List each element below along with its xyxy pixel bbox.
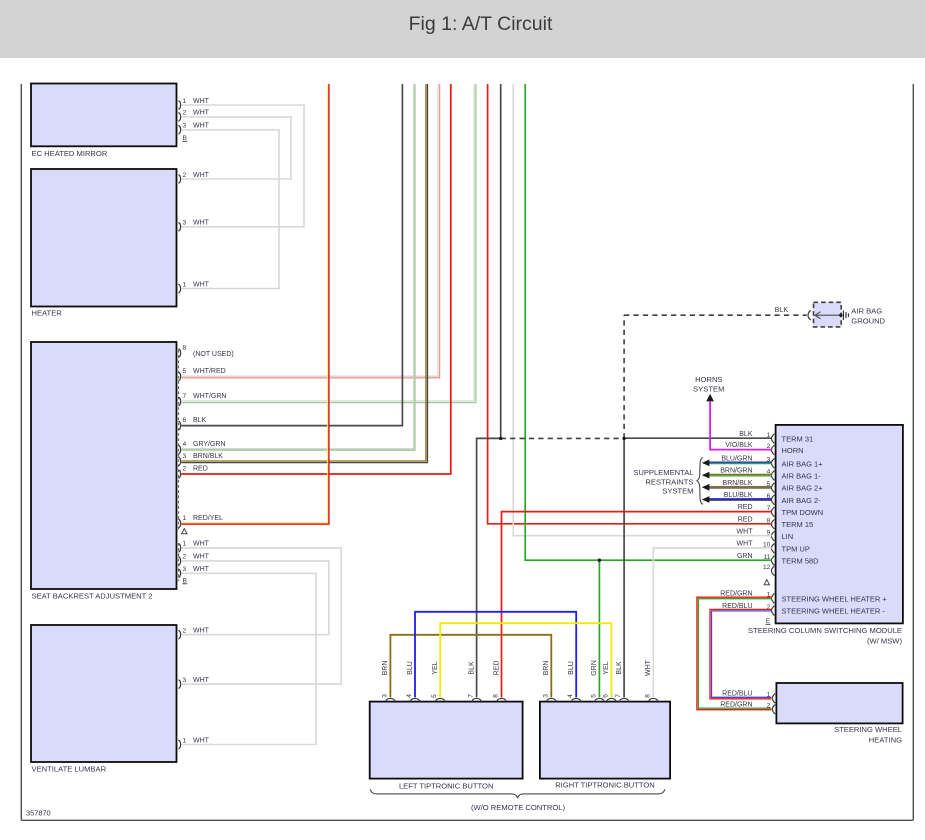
wire BLK branch down to right tiptronic pin7 xyxy=(623,438,625,697)
svg-text:WHT/GRN: WHT/GRN xyxy=(193,393,226,400)
svg-text:1: 1 xyxy=(183,515,187,522)
svg-text:WHT: WHT xyxy=(193,677,210,684)
module heater pin 2 RED/BLU xyxy=(771,606,774,616)
pin 3 WHT of EC HEATED MIRROR xyxy=(178,126,180,135)
module pin 5 BRN/BLK AIR BAG 2+ xyxy=(771,483,774,493)
svg-text:2: 2 xyxy=(183,110,187,117)
pin 2 WHT of SEAT BACKREST ADJUSTMENT 2 lower xyxy=(178,557,180,566)
svg-text:WHT/RED: WHT/RED xyxy=(193,368,226,375)
svg-text:TPM DOWN: TPM DOWN xyxy=(782,508,824,517)
svg-text:EC HEATED MIRROR: EC HEATED MIRROR xyxy=(32,149,108,158)
module pin 10 WHT TPM UP xyxy=(771,544,774,554)
module pin 3 BLU/GRN AIR BAG 1+ xyxy=(771,459,774,469)
svg-text:WHT: WHT xyxy=(193,554,210,561)
wire WHT/GRN seat pin7 to top xyxy=(181,84,474,401)
pin 1 WHT of HEATER xyxy=(178,284,180,293)
seat connector dashed strip lower group xyxy=(178,543,180,581)
svg-text:RED/GRN: RED/GRN xyxy=(720,702,752,709)
svg-text:VENTILATE LUMBAR: VENTILATE LUMBAR xyxy=(32,765,107,774)
svg-text:YEL: YEL xyxy=(432,661,439,674)
right tiptronic pin 3 BRN xyxy=(547,698,557,701)
svg-text:BLK: BLK xyxy=(616,661,623,675)
svg-text:VIO/BLK: VIO/BLK xyxy=(725,442,753,449)
svg-text:STEERING COLUMN SWITCHING MODU: STEERING COLUMN SWITCHING MODULE xyxy=(748,626,902,635)
svg-text:BRN: BRN xyxy=(543,661,550,676)
connector box LEFT TIPTRONIC BUTTON xyxy=(370,702,523,779)
svg-text:AIR BAG: AIR BAG xyxy=(851,307,882,316)
triangle symbol A on seat connector xyxy=(182,529,187,534)
wire BLK vertical from top xyxy=(500,84,502,438)
svg-text:2: 2 xyxy=(183,466,187,473)
svg-text:RED: RED xyxy=(193,466,208,473)
svg-text:BLU: BLU xyxy=(407,661,414,675)
connector box EC HEATED MIRROR xyxy=(31,84,177,147)
pin 1 WHT of SEAT BACKREST ADJUSTMENT 2 lower xyxy=(178,544,180,553)
wire WHT seat pin2 to vent pin2 xyxy=(181,561,328,635)
wire BLK dashed segment to junction xyxy=(501,437,624,439)
brace for SRS xyxy=(697,458,703,505)
svg-text:357870: 357870 xyxy=(26,809,51,818)
svg-text:2: 2 xyxy=(183,172,187,179)
svg-text:AIR BAG 2+: AIR BAG 2+ xyxy=(782,484,824,493)
svg-text:5: 5 xyxy=(431,694,438,698)
svg-text:AIR BAG 2-: AIR BAG 2- xyxy=(782,496,822,505)
pin 7 WHT/GRN of SEAT BACKREST ADJUSTMENT 2 xyxy=(178,397,180,406)
svg-text:RED: RED xyxy=(738,504,753,511)
svg-text:TPM UP: TPM UP xyxy=(782,544,810,553)
svg-text:TERM 58D: TERM 58D xyxy=(782,557,820,566)
svg-text:RED/BLU: RED/BLU xyxy=(722,691,752,698)
svg-text:3: 3 xyxy=(183,220,187,227)
wire BLU/GRN SRS arrow to module xyxy=(709,461,772,463)
svg-text:WHT: WHT xyxy=(193,172,210,179)
svg-text:1: 1 xyxy=(183,541,187,548)
wire BLU/BLK SRS arrow to module xyxy=(709,498,772,500)
svg-text:LIN: LIN xyxy=(782,532,794,541)
svg-text:B: B xyxy=(183,577,188,584)
right tiptronic pin 7 BLK xyxy=(619,698,629,701)
wire BLU left pin4 to right pin4 xyxy=(415,612,576,698)
pin 1 WHT of VENTILATE LUMBAR xyxy=(178,740,180,749)
right tiptronic pin 8 WHT xyxy=(649,698,659,701)
svg-text:WHT: WHT xyxy=(193,541,210,548)
module pin 8 RED TERM 15 xyxy=(771,519,774,529)
svg-text:3: 3 xyxy=(183,123,187,130)
pin 3 BRN/BLK of SEAT BACKREST ADJUSTMENT 2 xyxy=(178,457,180,466)
svg-text:12: 12 xyxy=(763,564,771,571)
right tiptronic pin 6 YEL xyxy=(607,698,617,701)
pin 2 RED of SEAT BACKREST ADJUSTMENT 2 xyxy=(178,470,180,479)
air bag ground arrow line xyxy=(815,314,841,316)
pin 5 WHT/RED of SEAT BACKREST ADJUSTMENT 2 xyxy=(178,372,180,381)
heating pin 1 RED/BLU xyxy=(772,694,775,704)
svg-text:HEATING: HEATING xyxy=(869,735,902,744)
pin 1 WHT of EC HEATED MIRROR xyxy=(178,101,180,110)
svg-text:3: 3 xyxy=(183,566,187,573)
svg-text:3: 3 xyxy=(542,694,549,698)
svg-text:BRN/BLK: BRN/BLK xyxy=(193,453,223,460)
left tiptronic pin 8 RED xyxy=(497,698,507,701)
svg-text:4: 4 xyxy=(406,694,413,698)
wire WHT EC pin1 to HEATER pin3 xyxy=(181,105,304,227)
left tiptronic pin 7 BLK xyxy=(472,698,482,701)
wire WHT seat pin1 to vent pin3 xyxy=(181,548,341,684)
frame left border line xyxy=(20,84,22,820)
svg-text:RIGHT TIPTRONIC BUTTON: RIGHT TIPTRONIC BUTTON xyxy=(555,781,655,790)
pin 3 WHT of SEAT BACKREST ADJUSTMENT 2 lower xyxy=(178,569,180,578)
module pin 6 BLU/BLK AIR BAG 2- xyxy=(771,495,774,505)
svg-text:HORN: HORN xyxy=(782,446,804,455)
connector box RIGHT TIPTRONIC BUTTON xyxy=(540,702,670,779)
svg-text:3: 3 xyxy=(183,677,187,684)
arrow to horns system xyxy=(706,394,714,402)
wire GRN branch to right tiptronic pin5 xyxy=(598,560,600,697)
svg-text:4: 4 xyxy=(567,694,574,698)
svg-text:WHT: WHT xyxy=(193,737,210,744)
svg-text:STEERING WHEEL HEATER +: STEERING WHEEL HEATER + xyxy=(782,594,888,603)
svg-text:WHT: WHT xyxy=(193,281,210,288)
svg-text:BRN: BRN xyxy=(382,661,389,676)
svg-text:BLK: BLK xyxy=(739,431,753,438)
svg-text:GRN: GRN xyxy=(591,660,598,676)
connector box STEERING COLUMN SWITCHING MODULE xyxy=(776,425,903,624)
svg-text:AIR BAG 1+: AIR BAG 1+ xyxy=(782,459,824,468)
svg-text:WHT: WHT xyxy=(193,566,210,573)
svg-text:GRN: GRN xyxy=(737,553,753,560)
svg-text:TERM 15: TERM 15 xyxy=(782,520,814,529)
svg-text:SUPPLEMENTAL: SUPPLEMENTAL xyxy=(633,468,693,477)
module pin 4 BRN/GRN AIR BAG 1- xyxy=(771,471,774,481)
svg-text:RESTRAINTS: RESTRAINTS xyxy=(645,477,693,486)
wire GRY/GRN seat pin4 to top xyxy=(181,84,413,449)
svg-text:BRN/GRN: BRN/GRN xyxy=(720,468,752,475)
svg-text:1: 1 xyxy=(183,281,187,288)
svg-text:RED: RED xyxy=(493,661,500,676)
wire WHT to module pin9 LIN from top xyxy=(513,84,772,536)
air bag ground junction dot xyxy=(839,314,842,317)
svg-text:RED/YEL: RED/YEL xyxy=(193,515,223,522)
svg-text:BLU/BLK: BLU/BLK xyxy=(724,492,753,499)
wire RED module pin7 TPM DOWN to left tiptronic pin8 xyxy=(502,512,772,698)
connector box STEERING WHEEL HEATING xyxy=(776,683,902,723)
svg-text:SEAT BACKREST ADJUSTMENT 2: SEAT BACKREST ADJUSTMENT 2 xyxy=(32,592,153,601)
pin 3 WHT of HEATER xyxy=(178,223,180,232)
svg-text:8: 8 xyxy=(183,345,187,352)
left tiptronic pin 5 YEL xyxy=(435,698,445,701)
wire RED seat pin2 to top xyxy=(181,84,451,474)
module pin 7 RED TPM DOWN xyxy=(771,507,774,517)
svg-text:(W/ MSW): (W/ MSW) xyxy=(867,636,902,645)
svg-text:3: 3 xyxy=(183,453,187,460)
module pin 1 BLK TERM 31 xyxy=(771,434,774,444)
pin 2 WHT of EC HEATED MIRROR xyxy=(178,113,180,122)
svg-text:BLU: BLU xyxy=(568,661,575,675)
svg-text:AIR BAG 1-: AIR BAG 1- xyxy=(782,472,822,481)
connector box SEAT BACKREST ADJUSTMENT 2 xyxy=(31,342,177,589)
wire WHT module pin10 TPM UP to right tiptronic pin8 xyxy=(653,548,772,698)
wire BLK solid to module pin1 TERM 31 xyxy=(624,437,772,439)
pin 8 (NOT USED) of SEAT BACKREST ADJUSTMENT 2 xyxy=(178,349,180,358)
pin 3 WHT of VENTILATE LUMBAR xyxy=(178,680,180,689)
left tiptronic pin 3 BRN xyxy=(386,698,396,701)
svg-text:(W/O REMOTE CONTROL): (W/O REMOTE CONTROL) xyxy=(471,803,566,812)
svg-text:GROUND: GROUND xyxy=(851,316,885,325)
pin 1 RED/YEL of SEAT BACKREST ADJUSTMENT 2 xyxy=(178,519,180,528)
pin 6 BLK of SEAT BACKREST ADJUSTMENT 2 xyxy=(178,421,180,430)
wire RED/GRN module hpin1 to heating pin2 xyxy=(697,597,772,710)
svg-text:8: 8 xyxy=(493,694,500,698)
wire BRN/GRN SRS arrow to module xyxy=(709,473,772,475)
wire BLK dashed up to air bag ground xyxy=(624,315,807,438)
wire VIO/BLK horns to module pin2 HORN xyxy=(710,401,772,449)
svg-text:3: 3 xyxy=(381,694,388,698)
pin 2 WHT of VENTILATE LUMBAR xyxy=(178,630,180,639)
connector box HEATER xyxy=(31,169,177,307)
air bag ground connector arc xyxy=(808,311,811,320)
wire WHT seat pin3 to vent pin1 xyxy=(181,573,316,744)
svg-text:2: 2 xyxy=(183,554,187,561)
svg-text:SYSTEM: SYSTEM xyxy=(662,487,693,496)
wire WHT EC pin2 to HEATER pin2 xyxy=(181,117,291,179)
svg-text:WHT: WHT xyxy=(193,110,210,117)
svg-text:WHT: WHT xyxy=(193,627,210,634)
module triangle symbol xyxy=(764,580,769,585)
svg-text:7: 7 xyxy=(468,694,475,698)
pin 2 WHT of HEATER xyxy=(178,175,180,184)
svg-text:4: 4 xyxy=(183,441,187,448)
seat connector dashed strip upper group xyxy=(178,350,180,530)
heating pin 2 RED/GRN xyxy=(772,705,775,715)
svg-text:1: 1 xyxy=(183,737,187,744)
svg-text:HEATER: HEATER xyxy=(32,309,63,318)
ground symbol bars xyxy=(842,310,844,320)
wire WHT EC pin3 to HEATER pin1 xyxy=(181,130,279,289)
svg-text:6: 6 xyxy=(183,417,187,424)
svg-text:WHT: WHT xyxy=(737,541,754,548)
svg-text:8: 8 xyxy=(644,694,651,698)
frame bottom border line xyxy=(21,819,913,821)
module pin 12 xyxy=(771,566,774,576)
svg-text:SYSTEM: SYSTEM xyxy=(693,385,724,394)
svg-text:BLK: BLK xyxy=(193,417,207,424)
underbrace tiptronic buttons xyxy=(370,789,665,797)
svg-text:(NOT USED): (NOT USED) xyxy=(193,351,234,358)
module pin 2 VIO/BLK HORN xyxy=(771,445,774,455)
svg-text:WHT: WHT xyxy=(193,98,210,105)
left tiptronic pin 4 BLU xyxy=(410,698,420,701)
wire YEL left pin5 to right pin6 xyxy=(440,623,611,697)
module heater pin 1 RED/GRN xyxy=(771,594,774,604)
svg-text:LEFT TIPTRONIC BUTTON: LEFT TIPTRONIC BUTTON xyxy=(399,782,494,791)
svg-text:YEL: YEL xyxy=(603,661,610,674)
module pin 9 WHT LIN xyxy=(771,531,774,541)
svg-text:B: B xyxy=(183,135,188,142)
svg-text:BLK: BLK xyxy=(468,661,475,675)
svg-text:STEERING WHEEL HEATER -: STEERING WHEEL HEATER - xyxy=(782,607,886,616)
svg-text:5: 5 xyxy=(590,694,597,698)
junction dot BLK left xyxy=(499,437,502,440)
wire GRN to module pin11 TERM 58D from top xyxy=(525,84,772,560)
svg-text:STEERING WHEEL: STEERING WHEEL xyxy=(834,725,902,734)
junction dot BLK right xyxy=(622,437,625,440)
svg-text:2: 2 xyxy=(183,627,187,634)
wire RED/YEL seat pin1 to top xyxy=(181,84,327,523)
right tiptronic pin 4 BLU xyxy=(571,698,581,701)
wire BRN left pin3 to right pin3 xyxy=(390,635,551,698)
right tiptronic pin 5 GRN xyxy=(595,698,605,701)
svg-text:TERM 31: TERM 31 xyxy=(782,435,814,444)
svg-text:RED: RED xyxy=(738,516,753,523)
wire RED to module pin8 TERM 15 from top xyxy=(488,84,772,524)
svg-text:WHT: WHT xyxy=(193,123,210,130)
svg-text:WHT: WHT xyxy=(645,659,652,676)
svg-text:BRN/BLK: BRN/BLK xyxy=(723,480,753,487)
air bag ground box xyxy=(814,302,842,327)
svg-text:E: E xyxy=(766,618,771,625)
svg-text:BLU/GRN: BLU/GRN xyxy=(721,456,752,463)
wire BRN/BLK SRS arrow to module xyxy=(709,486,772,488)
svg-text:6: 6 xyxy=(602,694,609,698)
svg-text:1: 1 xyxy=(183,98,187,105)
wire RED/BLU module hpin2 to heating pin1 xyxy=(710,609,772,698)
svg-text:WHT: WHT xyxy=(737,528,754,535)
pin 4 GRY/GRN of SEAT BACKREST ADJUSTMENT 2 xyxy=(178,445,180,454)
title header bar xyxy=(0,0,925,58)
wire BLK branch to left tiptronic pin7 xyxy=(477,438,501,697)
svg-text:WHT: WHT xyxy=(193,220,210,227)
connector box VENTILATE LUMBAR xyxy=(31,625,177,762)
svg-text:7: 7 xyxy=(615,694,622,698)
junction dot GRN xyxy=(598,559,601,562)
frame right border line xyxy=(912,84,914,820)
svg-text:7: 7 xyxy=(183,393,187,400)
svg-text:HORNS: HORNS xyxy=(695,375,722,384)
svg-text:GRY/GRN: GRY/GRN xyxy=(193,441,226,448)
wire BRN/BLK seat pin3 to top xyxy=(181,84,426,461)
wire WHT/RED seat pin5 to top xyxy=(181,84,438,376)
wire BLK seat pin6 to top xyxy=(181,84,402,426)
module pin 11 GRN TERM 58D xyxy=(771,556,774,566)
svg-text:BLK: BLK xyxy=(775,307,789,314)
svg-text:5: 5 xyxy=(183,368,187,375)
